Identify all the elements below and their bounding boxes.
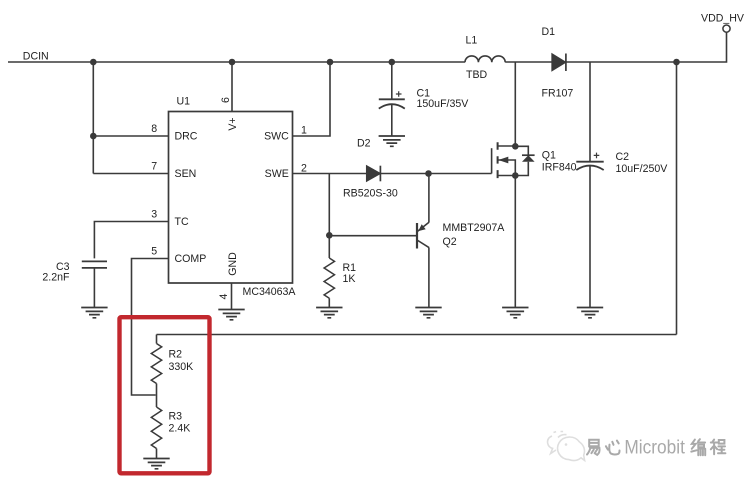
resistor R1 [324,258,334,298]
wire GND pin 4 [231,283,233,310]
wire bus to C2 [589,62,591,162]
node DRC junction [90,133,97,140]
wire Q1 source stub [498,175,516,177]
wire Q1 source to ground [514,176,516,308]
node Q1 source [512,172,519,179]
transistor Q1 arrow [498,157,508,164]
svg-text:MC34063A: MC34063A [243,286,297,298]
capacitor C2 plus sign [594,153,600,159]
wire R2 to node [156,384,158,396]
ground Q1 [502,308,528,318]
svg-text:R2: R2 [169,348,183,360]
transistor Q1 channel [497,142,499,178]
node C1 junction [389,59,396,66]
capacitor C2 curved plate [576,166,603,170]
wire bus to VDD_HV terminal [677,32,727,62]
wire output down [676,62,678,335]
svg-text:MMBT2907A: MMBT2907A [443,222,506,234]
transistor Q2 collector [417,240,429,248]
svg-text:5: 5 [151,245,157,257]
capacitor C3 [82,261,107,268]
svg-text:2.4K: 2.4K [169,422,191,434]
wire base wire [329,235,417,237]
svg-text:DRC: DRC [175,130,198,142]
svg-text:C2: C2 [616,151,630,163]
wire SEN pin 7 [93,173,168,175]
wire SWC pin 1 to bus [293,62,331,136]
ground U1 [218,310,244,320]
resistor R2 [151,344,161,384]
wire D2 cathode to gate [380,173,491,175]
transistor Q1 gate bar [491,148,493,173]
capacitor C1 curved plate [379,104,405,108]
wire base node to R1 [328,235,330,258]
svg-text:2: 2 [301,162,307,174]
transistor Q2 base bar [416,223,418,249]
wire DCIN down to SEN [92,62,94,174]
wire R1 to ground [328,298,330,307]
wire C2 to ground [589,166,591,308]
svg-text:COMP: COMP [175,253,207,265]
watermark logo [548,432,585,461]
ground R1 [316,308,342,318]
svg-text:Q1: Q1 [542,149,556,161]
svg-text:SWC: SWC [264,130,289,142]
ground Q2 [415,308,441,318]
resistor R3 [151,407,161,448]
capacitor C1 plus sign [396,91,402,97]
diode D2 [367,166,381,181]
wire C1 to ground [391,105,393,137]
ground R3 [143,459,169,469]
svg-text:3: 3 [151,208,157,220]
wire V+ pin 6 [231,62,233,112]
svg-text:2.2nF: 2.2nF [42,271,70,283]
node emitter junction [425,170,432,177]
wire collector to ground [428,248,430,308]
svg-text:RB520S-30: RB520S-30 [343,188,398,200]
svg-text:DCIN: DCIN [23,50,49,62]
svg-text:10uF/250V: 10uF/250V [616,163,669,175]
wire TC pin 3 to C3 [94,222,168,259]
wire SWE pin 2 [293,173,367,175]
wire feedback to R2 [156,335,158,344]
svg-text:V+: V+ [227,117,239,130]
diode D1 [552,54,566,71]
terminal VDD_HV [723,25,730,32]
svg-text:Q2: Q2 [443,236,457,248]
node base junction [326,232,333,239]
svg-text:D2: D2 [357,137,371,149]
node output junction [673,59,680,66]
wire node to R3 [156,395,158,407]
svg-text:7: 7 [151,160,157,172]
svg-text:150uF/35V: 150uF/35V [417,98,470,110]
svg-text:IRF840: IRF840 [542,162,577,174]
svg-text:8: 8 [151,123,157,135]
node Q1 drain [512,143,519,150]
transistor Q2 emitter arrow [418,224,426,231]
wire C3 to ground [93,268,95,308]
inductor L1 [465,56,505,62]
svg-text:TC: TC [175,216,189,228]
ground C2 [577,308,603,318]
svg-text:L1: L1 [466,34,478,46]
transistor Q2 emitter [417,222,429,232]
svg-text:VDD_HV: VDD_HV [701,13,745,25]
svg-text:R3: R3 [169,410,183,422]
svg-text:4: 4 [218,293,230,299]
wire bus to C1 [391,62,393,99]
svg-text:D1: D1 [542,26,556,38]
wire emitter up [428,174,430,223]
capacitor C2 plus plate [576,161,603,163]
wire SWE down to base node [328,174,330,236]
svg-text:FR107: FR107 [542,88,574,100]
svg-text:SEN: SEN [175,168,197,180]
highlight box around divider [120,317,210,473]
svg-text:U1: U1 [177,95,191,107]
wire top bus right of L1 [505,61,676,63]
wire DCIN top bus [8,61,465,63]
wire COMP pin 5 to divider [132,259,169,396]
wire R3 to ground [156,449,158,459]
wire Q1 drain stub [498,145,516,147]
op-amp U1 MC34063A body [169,112,293,284]
wire bus to Q1 drain [514,62,516,146]
svg-text:SWE: SWE [265,168,289,180]
svg-text:1: 1 [301,124,307,136]
watermark text [588,440,726,456]
wire feedback bottom [157,334,677,336]
svg-text:330K: 330K [169,361,194,373]
svg-text:Microbit: Microbit [624,438,685,459]
capacitor C1 plus plate [379,98,405,100]
svg-text:TBD: TBD [466,69,488,81]
wire DRC pin 8 [93,135,168,137]
node SWC junction [327,59,334,66]
node V+ junction [229,59,236,66]
ground C1 [379,136,405,146]
transistor Q1 body wire [498,160,516,176]
svg-text:6: 6 [220,97,232,103]
svg-text:1K: 1K [343,273,356,285]
diode Q1 body diode [515,146,528,175]
node DCIN junction [90,59,97,66]
svg-text:GND: GND [227,252,239,276]
ground C3 [81,308,107,318]
